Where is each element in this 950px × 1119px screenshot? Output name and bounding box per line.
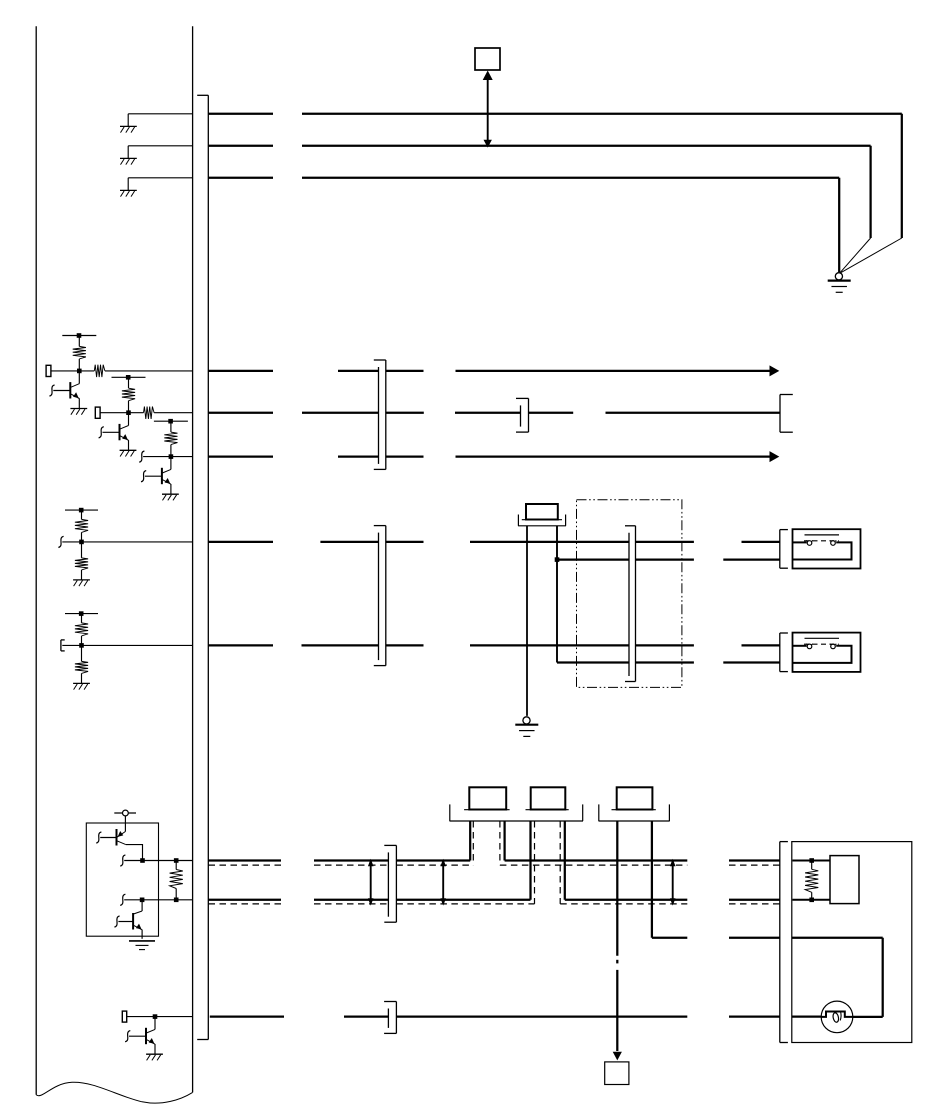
wire (module output 1) [120,855,192,866]
connector strip (ECU multi-pin connector) [197,95,208,1039]
wire (bottom transistor feed) [127,1014,193,1019]
wire hook (divider 4) [58,536,63,547]
lamp unit box [792,842,912,1043]
ground (module earth) [129,941,155,950]
transistor Q1 [49,371,87,415]
wire (P2 dashed left pin) [534,821,536,904]
connector plate (P3) [599,804,670,821]
lamp L1 [821,1001,853,1033]
left page border (torn sheet edge) [36,26,192,1103]
resistor R1a (pull-up) [73,336,86,371]
connector bracket (S2 input) [780,633,788,672]
wire (top line 3) [208,178,839,272]
resistor R4a (upper) [75,510,88,542]
junction tie T1 [368,859,374,906]
inline connector C4 (4-way) [625,526,636,682]
ground (body earth, centre) [515,717,538,737]
switch S1 contact b [830,540,837,545]
wire (lamp feed line) [652,938,883,1017]
node (circuit 1 base node) [77,369,82,374]
ground stub wire 3 [128,178,192,190]
wire (module input 2) [793,898,831,903]
switch S2 contact a [806,644,813,649]
wire (S2 feed to contact a) [793,645,807,647]
supply rail tap (circuit 3) [154,419,188,424]
resistor R4b (lower) [75,542,88,580]
inline connector C5 (4-way, bottom) [384,845,396,922]
wire (circuit 1 output) [51,370,193,372]
wire (P1 right pin) [503,821,505,861]
control module box (bottom left) [86,823,158,936]
junction tie T3 [670,859,676,906]
resistor R1b (series) [94,365,105,377]
transistor Q3 [141,457,179,501]
transistor Q2 [99,413,137,457]
supply terminal (circle) of module [114,810,136,816]
junction tie T2 [440,859,446,906]
resistor R2b (series) [144,407,155,419]
switch S1 box [793,529,861,568]
node (circuit 2 base node) [126,410,131,415]
resistor R3a (pull-up) [164,421,177,456]
transistor Q4 (PNP, module top) [96,816,142,861]
wire (P2 dashed right pin) [559,821,561,904]
terminal square (arrow target) [605,1062,629,1085]
wire (pair 2 solid) [208,899,780,901]
wire (P1 dashed right pin) [499,821,501,865]
wire (top line 1) [208,114,902,273]
node (circuit 3 base node) [169,454,174,459]
connector bracket C6 (lamp unit input) [780,842,788,1043]
wire (P1 dashed left pin) [472,821,474,865]
ground (divider 5) [73,683,90,689]
wire (divider 5 output) [62,644,192,646]
wire (line to switch S2 lower) [557,661,780,663]
double-headed arrow to terminal square [483,71,493,148]
supply rail tap (divider 4) [65,508,98,513]
switch S2 dashed actuator line [804,643,839,645]
transistor Q6 (bottom) [125,1017,163,1061]
terminal bracket (line 2 end) [780,395,793,433]
resistor R5a (upper) [75,614,88,646]
wire (P3 right pin to lamp circuit) [651,821,653,938]
switch S1 dashed actuator line [804,540,839,542]
connector pin (circuit 1) [46,365,51,376]
wire (P1 left pin) [469,821,471,861]
inline connector C7 (bottom line) [384,1002,396,1034]
wire (S2 contact b return loop) [793,646,852,663]
switch S1 armature bar [805,534,840,536]
component housing (sensor P2) [526,787,569,809]
diode module (in lamp unit) [830,856,859,904]
connector bracket (S1 input) [780,530,788,569]
ground (stub 3) [120,190,137,196]
resistor R5b (lower) [75,645,88,683]
ground stub wire 2 [128,146,192,158]
wire (divider 4 output) [62,541,192,543]
wire (module output 2) [120,894,192,905]
connector pin (circuit 2) [95,407,100,418]
fuse holder component (hat) [518,504,566,526]
wire (S1 feed to contact a) [793,541,807,543]
harness boundary (dash-dot box) [577,500,682,688]
switch S1 contact a [806,540,813,545]
switch S2 armature bar [805,637,840,639]
supply rail tap (divider 5) [65,611,98,616]
wire (circuit 3 output) [143,456,193,458]
switch S2 contact b [830,644,837,649]
wire (pair 1 solid) [208,859,780,861]
switch S2 box [793,633,861,672]
wire (hat left pin to ground) [526,526,528,716]
supply rail tap (circuit 1) [62,333,96,338]
inline connector C3 (2-way) [374,526,386,666]
wire (sensor line B) [208,644,780,646]
wire (S1 contact b return loop) [793,542,852,559]
ECU boundary line (right border) [192,26,194,1092]
wire (circuit 2 output) [100,412,193,414]
node (divider 4) [79,540,84,545]
connector plate (P1+P2) [450,804,584,821]
wire (signal line 3 with arrow) [208,451,779,462]
wire (top line 2) [208,146,870,273]
component housing (sensor P3) [612,787,656,809]
ground stub wire 1 (top left) [128,114,192,126]
ground (divider 4) [73,580,90,586]
ground (body earth, top right) [828,273,851,293]
terminal bracket (divider 5) [61,640,65,651]
inline connector C2 (single, line 2) [516,398,529,432]
connector pin (bottom transistor) [122,1011,126,1022]
resistor R6 (between outputs) [170,862,183,898]
wire (signal line 2) [208,412,779,414]
terminal square (top connector block) [475,48,500,70]
resistor R7 (parallel with module) [805,862,818,898]
wire (hat right pin) [555,526,560,663]
wire (signal line 1 with arrow) [208,365,779,376]
wire (pair 1 dashed) [209,864,780,866]
wire (module input 1) [793,858,831,863]
component housing (sensor P1) [464,787,510,809]
wire (line to switch S1 lower) [557,558,780,560]
inline connector C1 (3-way) [374,360,386,469]
wire hook (circuit 3) [139,451,144,462]
ground (stub 2) [120,158,137,164]
wire (sensor line A) [208,541,780,543]
wire (P3 left pin, drops to output arrow) [613,821,622,1060]
transistor Q5 (module bottom) [114,900,142,939]
wire (pair 2 dashed) [209,903,780,905]
wire (P2 left pin) [529,821,531,900]
supply rail tap (circuit 2) [112,375,146,380]
wire (P2 right pin) [564,821,566,900]
wire (bottom line 5) [210,1015,821,1017]
ground (stub 1) [120,126,137,132]
node (divider 5) [79,643,84,648]
resistor R2a (pull-up) [122,377,135,412]
